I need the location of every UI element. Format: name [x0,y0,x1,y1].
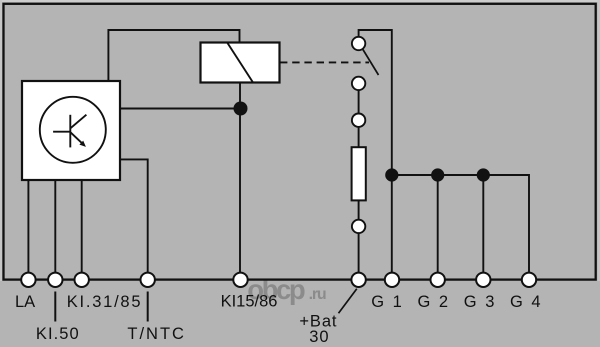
svg-text:T/NTC: T/NTC [127,325,186,343]
svg-text:KI15/86: KI15/86 [221,293,278,311]
switch lower contact [352,77,365,90]
frame / bus border [4,4,596,280]
svg-text:KI.31/85: KI.31/85 [67,293,142,311]
terminal Kl.50 [48,273,62,287]
label tick T/NTC [147,292,149,322]
terminal Kl.31/85 [75,273,89,287]
label tick Kl.50 [54,292,56,322]
terminal T/NTC [141,273,155,287]
wire: bus to G2 [437,175,439,273]
wire: switch top contact to G1 drop [359,30,392,273]
pointer line to +Bat [339,289,357,313]
transistor emitter arrowhead [79,141,86,147]
svg-text:G 4: G 4 [510,293,543,311]
junction node G1 [385,168,398,181]
terminal LA [21,273,35,287]
wire: fuse to connector [358,200,360,219]
terminal +Bat 30 [351,273,365,287]
wire: bus to G3 [482,175,484,273]
wire: connector to fuse [358,127,360,147]
transistor symbol [53,115,86,148]
connector pin [352,114,365,127]
junction node G2 [431,168,444,181]
relay coil K1 [201,43,280,83]
svg-text:30: 30 [309,328,329,346]
fuse F1 [352,147,366,200]
glow plug bus wire [392,175,529,273]
terminal G2 [431,273,445,287]
control unit circle [40,97,106,163]
watermark obcp.ru [247,274,326,305]
svg-text:.ru: .ru [309,286,326,303]
wire: control unit bottom pin to LA [27,180,29,273]
svg-text:LA: LA [15,293,35,311]
terminal G4 [522,273,536,287]
junction node G3 [477,168,490,181]
wire: control unit right pin to T/NTC terminal [120,159,148,272]
wire: control unit bottom pin to Kl.31/85 [81,180,83,273]
control unit U1 (glow time relay) [22,81,120,180]
dashed link relay to switch [280,61,369,63]
svg-text:G 3: G 3 [464,293,497,311]
wire: control unit bottom pin to Kl.50 [54,180,56,273]
wire: control unit right pin to junction [120,108,240,110]
svg-text:KI.50: KI.50 [36,325,80,343]
terminal Kl15/86 [233,273,247,287]
connector pin [352,220,365,233]
switch top contact [352,37,365,50]
wire: relay coil bottom to Kl15/86 terminal [239,83,241,273]
terminal G1 [385,273,399,287]
junction dot (Kl15/86 node) [234,102,248,116]
wire: control unit top pin to relay coil [108,30,239,81]
terminal G3 [476,273,490,287]
wire: connector to +Bat terminal [358,233,360,273]
switch blade [362,49,378,76]
svg-text:G 2: G 2 [418,293,451,311]
svg-text:G 1: G 1 [371,293,404,311]
wire: lower contact to connector [358,90,360,114]
